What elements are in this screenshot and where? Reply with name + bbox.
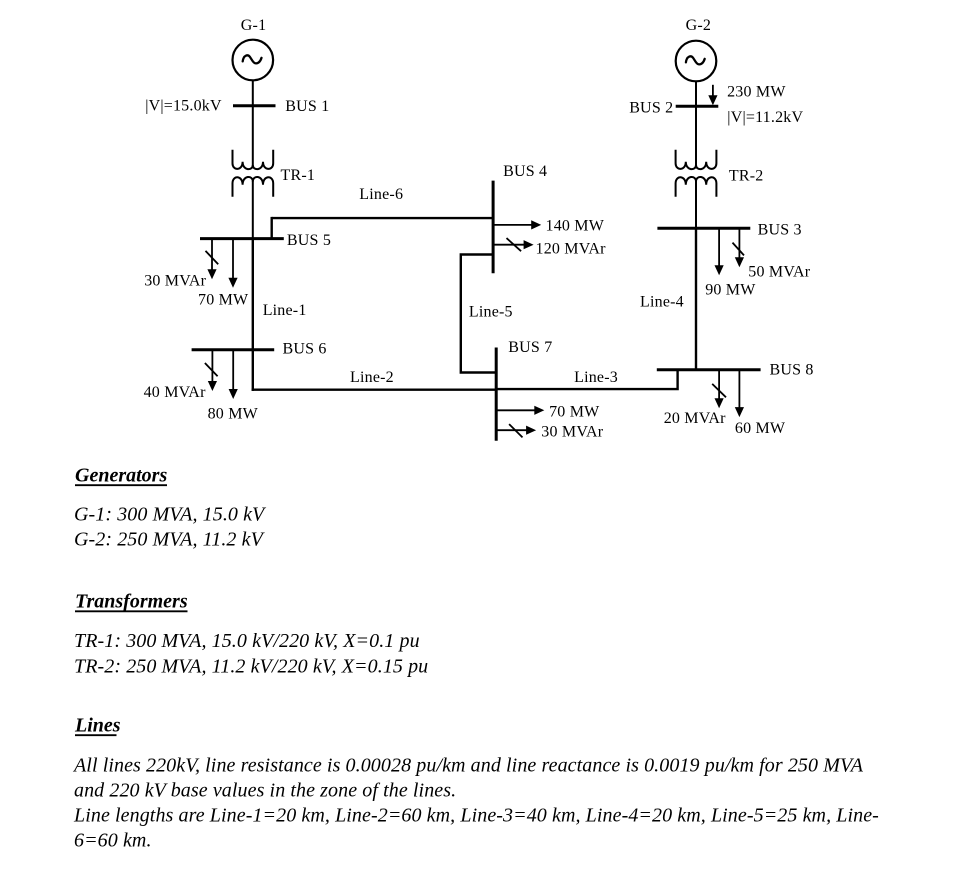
- svg-text:BUS 6: BUS 6: [283, 341, 327, 358]
- svg-text:TR-1: 300 MVA, 15.0 kV/220 kV,: TR-1: 300 MVA, 15.0 kV/220 kV, X=0.1 pu: [74, 630, 420, 652]
- svg-text:Line-1: Line-1: [263, 302, 307, 319]
- svg-text:BUS 5: BUS 5: [287, 232, 331, 249]
- transformer TR-2: [676, 150, 717, 197]
- input arrow 230 MW into BUS 2: [708, 85, 717, 105]
- load arrow 50 MVAr on BUS 3: [733, 228, 745, 267]
- wire G-2 to BUS 2: [695, 81, 697, 106]
- section heading Lines: [74, 715, 121, 737]
- bus BUS 2: [676, 105, 719, 108]
- svg-text:Lines: Lines: [74, 715, 121, 737]
- svg-text:70 MW: 70 MW: [549, 404, 600, 421]
- wire TR-2 to BUS 3: [695, 181, 697, 228]
- load arrow 70 MW on BUS 7: [496, 406, 544, 415]
- svg-text:30 MVAr: 30 MVAr: [541, 424, 603, 441]
- svg-text:G-1: G-1: [241, 17, 266, 34]
- wire G-1 to BUS 1: [252, 80, 254, 106]
- wire BUS 5 stub up to Line-6: [271, 217, 273, 239]
- svg-text:Transformers: Transformers: [75, 591, 188, 613]
- svg-text:G-2: 250 MVA, 11.2 kV: G-2: 250 MVA, 11.2 kV: [74, 529, 266, 551]
- bus BUS 6: [192, 348, 275, 351]
- wire TR-1 to BUS 5: [252, 181, 254, 239]
- svg-text:BUS 1: BUS 1: [285, 98, 329, 115]
- load arrow 60 MW on BUS 8: [735, 370, 744, 417]
- svg-text:TR-2: TR-2: [729, 168, 764, 185]
- svg-text:Line lengths are Line-1=20 km,: Line lengths are Line-1=20 km, Line-2=60…: [73, 804, 879, 826]
- generator G-2: [676, 41, 717, 82]
- load arrow 30 MVAr on BUS 7: [496, 424, 536, 437]
- section heading Transformers: [75, 591, 188, 613]
- line Line-1: [252, 239, 254, 350]
- bus BUS 3: [657, 227, 750, 230]
- svg-text:BUS 2: BUS 2: [629, 99, 673, 116]
- generator G-1: [233, 40, 274, 81]
- transformer TR-1: [233, 150, 274, 197]
- svg-text:Line-6: Line-6: [359, 186, 403, 203]
- wire BUS 2 to TR-2: [695, 106, 697, 165]
- load arrow 30 MVAr on BUS 5: [206, 239, 219, 280]
- svg-text:230 MW: 230 MW: [727, 83, 786, 100]
- bus BUS 8: [657, 368, 761, 371]
- line Line-3: [496, 370, 677, 389]
- wire BUS 1 to TR-1: [252, 106, 254, 166]
- bus BUS 4: [492, 181, 495, 274]
- svg-text:80 MW: 80 MW: [208, 405, 259, 422]
- svg-text:|V|=11.2kV: |V|=11.2kV: [727, 109, 803, 126]
- load arrow 70 MW on BUS 5: [228, 239, 237, 288]
- svg-text:G-2: G-2: [686, 17, 711, 34]
- load arrow 140 MW on BUS 4: [493, 220, 541, 229]
- line Line-5: [461, 255, 496, 373]
- load arrow 80 MW on BUS 6: [229, 350, 238, 399]
- svg-text:30 MVAr: 30 MVAr: [144, 273, 206, 290]
- load arrow 40 MVAr on BUS 6: [205, 350, 218, 391]
- svg-text:120 MVAr: 120 MVAr: [536, 240, 607, 257]
- svg-text:TR-2: 250 MVA, 11.2 kV/220 kV,: TR-2: 250 MVA, 11.2 kV/220 kV, X=0.15 pu: [74, 656, 428, 678]
- line Line-4: [695, 228, 697, 370]
- svg-text:All lines 220kV, line resistan: All lines 220kV, line resistance is 0.00…: [72, 754, 864, 776]
- svg-text:BUS 8: BUS 8: [770, 362, 814, 379]
- svg-text:60 MW: 60 MW: [735, 420, 786, 437]
- svg-text:Line-3: Line-3: [574, 369, 618, 386]
- svg-text:Line-2: Line-2: [350, 369, 394, 386]
- svg-text:140 MW: 140 MW: [546, 217, 605, 234]
- svg-text:6=60 km.: 6=60 km.: [74, 830, 152, 852]
- bus BUS 5: [200, 237, 284, 240]
- section heading Generators: [75, 465, 167, 487]
- bus BUS 7: [495, 348, 498, 441]
- svg-text:50 MVAr: 50 MVAr: [748, 264, 810, 281]
- svg-text:Generators: Generators: [75, 465, 167, 487]
- svg-text:70 MW: 70 MW: [198, 292, 249, 309]
- svg-text:Line-5: Line-5: [469, 304, 513, 321]
- svg-text:|V|=15.0kV: |V|=15.0kV: [145, 98, 222, 115]
- svg-text:TR-1: TR-1: [281, 167, 316, 184]
- svg-text:Line-4: Line-4: [640, 294, 684, 311]
- load arrow 90 MW on BUS 3: [715, 228, 724, 275]
- svg-text:BUS 7: BUS 7: [508, 339, 552, 356]
- wire BUS 6 to Line-2 corner: [252, 350, 254, 391]
- svg-text:20 MVAr: 20 MVAr: [664, 410, 726, 427]
- line Line-2: [252, 389, 497, 391]
- svg-text:and 220 kV base values in the: and 220 kV base values in the zone of th…: [74, 779, 456, 801]
- svg-text:40 MVAr: 40 MVAr: [144, 384, 206, 401]
- svg-text:G-1: 300 MVA, 15.0 kV: G-1: 300 MVA, 15.0 kV: [74, 504, 267, 526]
- bus BUS 1: [233, 104, 276, 107]
- svg-text:90 MW: 90 MW: [705, 281, 756, 298]
- line Line-6: [272, 217, 493, 219]
- load arrow 120 MVAr on BUS 4: [493, 238, 533, 251]
- svg-text:BUS 4: BUS 4: [503, 163, 547, 180]
- load arrow 20 MVAr on BUS 8: [712, 370, 726, 409]
- svg-text:BUS 3: BUS 3: [758, 222, 802, 239]
